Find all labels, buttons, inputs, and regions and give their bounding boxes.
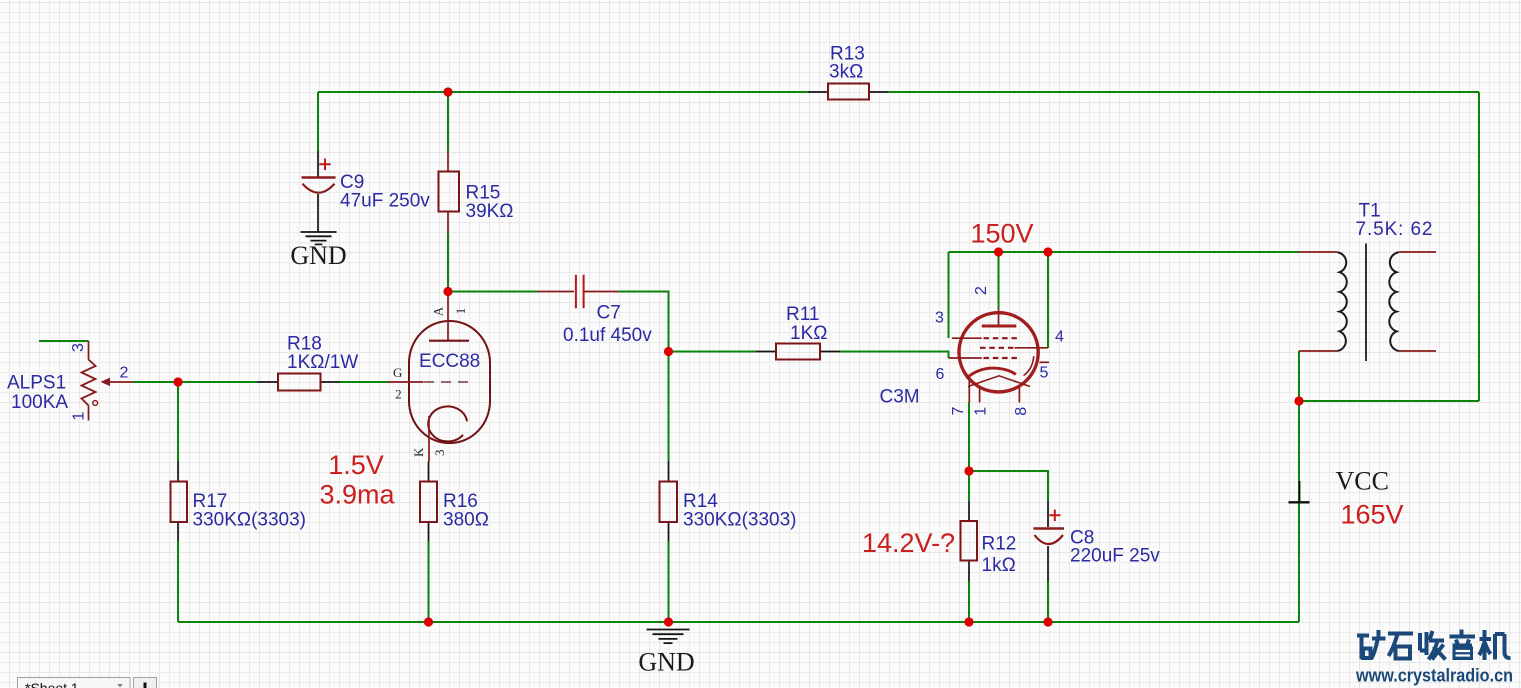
svg-text:ECC88: ECC88	[419, 351, 480, 372]
wire R14 junction down	[668, 352, 670, 462]
C3M anode pin 2 lead	[998, 308, 1000, 325]
svg-text:39KΩ: 39KΩ	[466, 201, 514, 222]
C3M grid pin 3 lead	[952, 337, 982, 339]
svg-text:1: 1	[453, 308, 468, 315]
svg-text:1KΩ/1W: 1KΩ/1W	[287, 352, 358, 373]
wire pot junction down to R17	[177, 382, 179, 461]
ECC88 grid pin	[388, 381, 424, 383]
svg-text:220uF 25v: 220uF 25v	[1070, 546, 1160, 567]
svg-text:GND: GND	[290, 241, 346, 270]
svg-text:3kΩ: 3kΩ	[829, 62, 863, 83]
svg-text:3.9ma: 3.9ma	[319, 480, 395, 510]
C3M cathode pin 7 lead	[968, 378, 970, 403]
tube C3M U2	[959, 313, 1038, 392]
svg-text:G: G	[393, 365, 402, 380]
svg-text:1KΩ: 1KΩ	[790, 323, 827, 344]
svg-text:100KA: 100KA	[11, 392, 68, 413]
C3M pin 5 lead	[1040, 361, 1050, 363]
ECC88 anode pin	[447, 293, 449, 340]
svg-text:2: 2	[120, 365, 129, 382]
wire C7 to R14 corner	[619, 292, 669, 352]
sheet tab bar	[18, 678, 157, 688]
svg-text:0.1uf 450v: 0.1uf 450v	[563, 325, 652, 346]
resistor R15	[439, 151, 460, 233]
power port VCC	[1289, 481, 1310, 502]
resistor R13	[808, 84, 888, 100]
potentiometer ALPS1	[82, 341, 133, 421]
svg-text:7.5K: 62: 7.5K: 62	[1356, 219, 1433, 240]
C3M grid pin 6 lead	[949, 357, 982, 359]
wire R15 top	[447, 92, 449, 151]
wire R17 to bottom rail	[177, 542, 179, 623]
svg-text:165V: 165V	[1341, 500, 1404, 530]
svg-text:5: 5	[1040, 365, 1049, 382]
svg-text:3: 3	[935, 310, 944, 327]
svg-text:330KΩ(3303): 330KΩ(3303)	[193, 510, 307, 531]
wire right side drop	[1478, 92, 1480, 401]
svg-text:K: K	[411, 447, 426, 457]
wire pin3 drop	[948, 252, 950, 338]
capacitor C8	[1034, 502, 1065, 582]
svg-text:1kΩ: 1kΩ	[982, 555, 1016, 576]
wire right bottom link	[1299, 400, 1479, 402]
svg-text:R12: R12	[982, 534, 1017, 555]
svg-text:R11: R11	[786, 304, 819, 325]
wire transformer primary bottom to junction	[1298, 351, 1300, 401]
svg-text:3: 3	[70, 343, 87, 352]
svg-text:ALPS1: ALPS1	[7, 373, 66, 394]
transformer T1	[1299, 244, 1436, 362]
C3M screen pin 4 lead	[1015, 347, 1049, 349]
ground symbol GND2	[638, 630, 694, 677]
wire top rail	[318, 91, 1479, 93]
svg-text:*Sheet 1: *Sheet 1	[25, 680, 79, 688]
svg-text:A: A	[431, 306, 446, 316]
svg-text:C7: C7	[597, 303, 621, 324]
wire R11 row	[669, 352, 949, 359]
svg-text:C3M: C3M	[880, 387, 920, 408]
wire R14 to bottom rail	[668, 542, 670, 623]
svg-text:1: 1	[973, 407, 990, 416]
wire pin4 drop	[1047, 252, 1049, 348]
capacitor C7	[538, 275, 620, 309]
wire pin2 drop	[998, 252, 1000, 308]
resistor R17	[171, 461, 188, 542]
ground symbol GND1	[290, 232, 346, 270]
svg-text:2: 2	[973, 286, 990, 295]
resistor R14	[660, 461, 678, 542]
svg-text:3: 3	[432, 450, 447, 457]
resistor R11	[756, 344, 840, 360]
wire C3M top rail	[949, 251, 1300, 253]
svg-text:150V: 150V	[971, 219, 1034, 249]
svg-text:14.2V-?: 14.2V-?	[862, 528, 955, 558]
svg-text:4: 4	[1055, 329, 1064, 346]
wire R18 to grid pin	[340, 381, 388, 383]
resistor R16	[420, 482, 437, 542]
svg-text:47uF 250v: 47uF 250v	[340, 191, 430, 212]
svg-text:1.5V: 1.5V	[328, 450, 384, 480]
wire bottom rail	[178, 621, 1299, 623]
svg-text:2: 2	[395, 387, 402, 402]
wire C9 branch	[317, 92, 319, 151]
svg-text:6: 6	[936, 366, 945, 383]
resistor R18	[258, 374, 341, 391]
wire input left	[39, 340, 89, 342]
wire junction to R18	[178, 381, 258, 383]
svg-text:7: 7	[950, 406, 967, 415]
C3M heater pin 8 lead	[1018, 387, 1020, 403]
wire R15 bottom	[447, 233, 449, 292]
wire pin7 drop	[968, 403, 970, 472]
capacitor C9	[302, 151, 336, 232]
watermark logo 矿石收音机	[1357, 630, 1511, 661]
resistor R12	[961, 502, 978, 582]
wire C8 links	[969, 471, 1048, 622]
svg-text:330KΩ(3303): 330KΩ(3303)	[683, 510, 797, 531]
svg-text:GND: GND	[638, 648, 694, 677]
wire anode junction to C7	[448, 291, 538, 293]
svg-text:8: 8	[1013, 407, 1030, 416]
ECC88 cathode pin	[428, 416, 431, 482]
svg-text:www.crystalradio.cn: www.crystalradio.cn	[1355, 666, 1513, 686]
wire R12 links	[968, 471, 970, 622]
C3M heater pin 1 lead	[979, 388, 981, 403]
wire VCC drop	[1298, 401, 1300, 622]
wire wiper to junction	[133, 381, 179, 383]
tube ECC88 U1	[409, 321, 490, 443]
svg-text:1: 1	[71, 412, 88, 421]
wire R16 to bottom rail	[428, 542, 430, 623]
svg-text:VCC: VCC	[1336, 467, 1389, 496]
svg-text:380Ω: 380Ω	[443, 510, 489, 531]
